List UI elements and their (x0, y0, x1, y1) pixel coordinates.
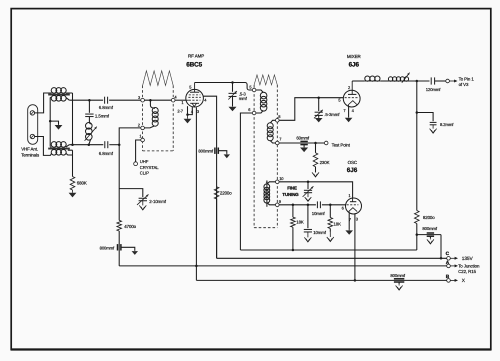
svg-text:800mmf: 800mmf (422, 226, 437, 231)
svg-text:60mmf: 60mmf (296, 135, 310, 140)
svg-text:CRYSTAL: CRYSTAL (140, 165, 159, 170)
svg-text:Terminals: Terminals (21, 152, 40, 157)
svg-text:6J6: 6J6 (347, 167, 358, 174)
svg-text:2200o: 2200o (220, 191, 232, 196)
svg-text:To Pin 1: To Pin 1 (459, 76, 475, 81)
svg-text:2-7: 2-7 (177, 109, 183, 114)
svg-text:18K: 18K (296, 219, 304, 224)
svg-text:MIXER: MIXER (347, 54, 362, 59)
svg-text:230K: 230K (320, 160, 330, 165)
svg-text:mmf: mmf (239, 96, 248, 101)
svg-text:To Junction: To Junction (458, 263, 480, 268)
svg-text:4700o: 4700o (124, 224, 136, 229)
svg-text:C22, R15: C22, R15 (458, 269, 476, 274)
svg-text:FINE: FINE (287, 186, 297, 191)
svg-text:of V3: of V3 (459, 82, 469, 87)
svg-text:800mmf: 800mmf (198, 149, 213, 154)
svg-text:18K: 18K (334, 221, 342, 226)
svg-text:800mmf: 800mmf (390, 273, 405, 278)
svg-text:2-10mmf: 2-10mmf (149, 199, 167, 204)
svg-text:OSC: OSC (348, 160, 358, 165)
svg-text:UHF: UHF (140, 159, 149, 164)
svg-text:VHF Ant.: VHF Ant. (21, 146, 38, 151)
svg-text:6J6: 6J6 (349, 62, 360, 69)
svg-text:RF AMP: RF AMP (188, 54, 204, 59)
svg-text:Test Point: Test Point (332, 142, 351, 147)
svg-text:TUNING: TUNING (282, 192, 299, 197)
svg-text:CLIP: CLIP (140, 170, 149, 175)
svg-text:6.8mmf: 6.8mmf (99, 105, 114, 110)
svg-text:10mmf: 10mmf (312, 211, 326, 216)
svg-text:800mmf: 800mmf (100, 245, 115, 250)
svg-text:120mmf: 120mmf (426, 87, 441, 92)
svg-text:680K: 680K (77, 181, 87, 186)
svg-text:135V: 135V (462, 256, 474, 262)
svg-text:.5-3mmf: .5-3mmf (324, 112, 340, 117)
svg-text:1.5mmf: 1.5mmf (95, 113, 110, 118)
svg-text:8.2mmf: 8.2mmf (440, 122, 454, 127)
svg-text:8200o: 8200o (423, 215, 435, 220)
svg-text:10mmf: 10mmf (313, 230, 327, 235)
svg-text:6BC5: 6BC5 (186, 61, 202, 68)
svg-text:6.8mmf: 6.8mmf (99, 151, 114, 156)
